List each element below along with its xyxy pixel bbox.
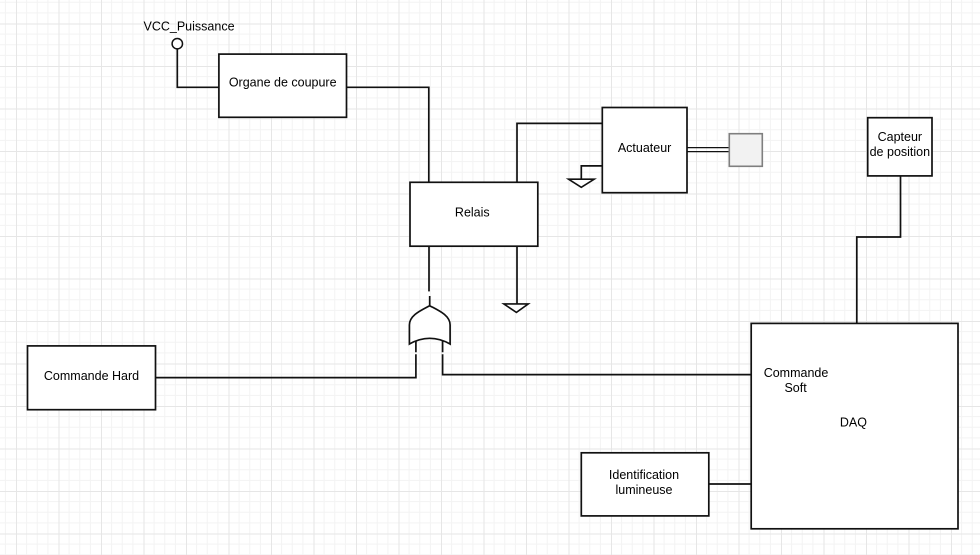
svg-text:VCC_Puissance: VCC_Puissance bbox=[144, 20, 235, 34]
svg-text:DAQ: DAQ bbox=[840, 416, 867, 430]
svg-text:de position: de position bbox=[870, 145, 931, 159]
svg-text:Commande Hard: Commande Hard bbox=[44, 369, 139, 383]
svg-text:Capteur: Capteur bbox=[878, 130, 922, 144]
svg-text:Actuateur: Actuateur bbox=[618, 141, 672, 155]
svg-text:Commande: Commande bbox=[764, 366, 829, 380]
svg-text:Identification: Identification bbox=[609, 468, 679, 482]
svg-text:Relais: Relais bbox=[455, 205, 490, 219]
svg-text:Soft: Soft bbox=[784, 381, 807, 395]
svg-text:Organe de coupure: Organe de coupure bbox=[229, 76, 337, 90]
svg-text:lumineuse: lumineuse bbox=[616, 483, 673, 497]
